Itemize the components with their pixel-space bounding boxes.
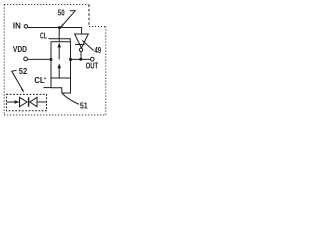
arrow up inside box lower: [59, 68, 60, 77]
svg-text:IN: IN: [13, 22, 21, 31]
svg-text:52: 52: [19, 66, 28, 76]
prime dot of CL-prime: [44, 78, 46, 80]
boundary top dotted: [4, 4, 88, 6]
boundary bottom dotted: [4, 114, 106, 116]
junction dot zener-OUT: [80, 58, 83, 61]
wire CL-prime to box: [44, 87, 52, 89]
svg-text:VDD: VDD: [13, 44, 27, 54]
wire zener to OUT net: [80, 52, 82, 59]
boundary notch horizontal: [89, 26, 106, 28]
arrowhead leader 50: [61, 25, 64, 28]
svg-text:51: 51: [80, 101, 88, 111]
leader 51: [62, 94, 79, 105]
svg-text:50: 50: [58, 8, 65, 17]
terminal OUT circle: [91, 57, 95, 61]
box internal divider: [51, 77, 71, 79]
terminal IN circle: [24, 25, 28, 29]
arrow up inside box upper: [59, 47, 60, 59]
pad box right: [69, 58, 72, 61]
diode D52 center bar: [28, 97, 30, 106]
wire junction drop to box top: [58, 28, 60, 42]
wire drop to zener: [81, 28, 83, 35]
boundary left dotted: [3, 5, 5, 116]
boundary right dotted: [105, 27, 107, 116]
diode D52 left triangle: [20, 97, 28, 106]
svg-text:CL: CL: [40, 32, 47, 40]
zener cathode bar: [75, 44, 84, 46]
arrowhead on D52 wire: [15, 100, 20, 104]
wire CL horizontal: [49, 39, 71, 42]
diode D52 right triangle: [30, 97, 37, 106]
leader 50: [61, 11, 75, 27]
diode D52 right wire: [37, 101, 47, 103]
wire IN horizontal: [28, 27, 82, 29]
svg-text:CL: CL: [34, 76, 45, 85]
wire OUT horizontal: [72, 58, 90, 60]
leader 52: [12, 70, 23, 91]
zener diode D49 triangle: [75, 34, 89, 48]
boundary notch vertical: [88, 5, 90, 27]
leader 49: [82, 41, 93, 51]
svg-text:OUT: OUT: [86, 61, 99, 71]
dashed box around D52: [7, 94, 47, 110]
junction dot on IN wire: [58, 26, 61, 29]
svg-text:49: 49: [94, 46, 101, 55]
arrowhead leader 52: [21, 89, 24, 93]
zener junction circle: [79, 48, 82, 51]
diode D52 left wire with arrow: [7, 101, 17, 103]
pad box left: [50, 58, 53, 61]
wire VDD horizontal: [28, 58, 50, 60]
terminal VDD circle: [24, 57, 28, 61]
box U50 drive circuit outline: [51, 42, 71, 93]
